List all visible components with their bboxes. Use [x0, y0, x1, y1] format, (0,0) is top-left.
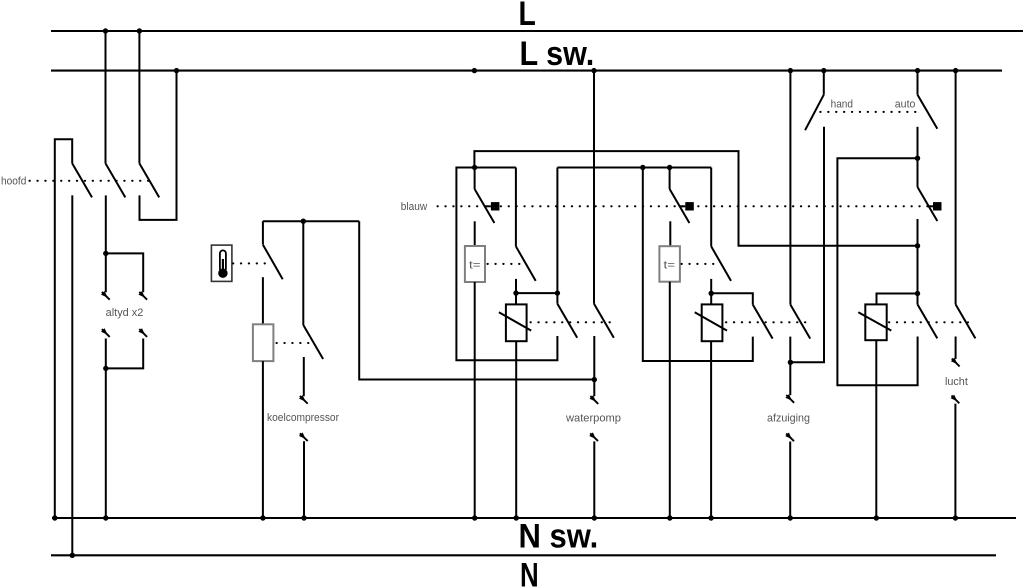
junction dot N hoofd pole1	[70, 553, 75, 558]
koel thermostat switch top stub	[262, 221, 264, 244]
koelcompressor top feed wire	[263, 220, 359, 222]
afzuiging timer box t=	[659, 246, 680, 282]
svg-text:waterpomp: waterpomp	[565, 413, 621, 425]
altyd branch bottom wires	[106, 339, 143, 369]
junction dot L sw. lucht switch D	[953, 68, 958, 73]
junction dot waterpomp node C	[555, 290, 560, 295]
junction dot N sw. lucht box	[874, 515, 879, 520]
wire auto switch to lucht contact	[837, 158, 917, 385]
afzuiging timer dotted link	[682, 263, 720, 265]
lucht switch D bottom stub	[955, 337, 957, 359]
waterpomp switch A indicator square	[491, 202, 500, 210]
lucht switch D blade	[956, 304, 976, 338]
wire altyd node to N sw. rail	[105, 368, 107, 518]
lucht switch A stub	[917, 158, 919, 187]
afzuiging contactor box	[702, 304, 723, 341]
junction dot lucht node C	[915, 291, 920, 296]
wire switch A to timer	[474, 221, 476, 246]
afzuiging switch B blade	[711, 246, 731, 281]
wire coil box to N sw. rail	[262, 361, 264, 518]
altyd lamp outlet arrow right bottom	[138, 328, 147, 337]
lucht switch A indicator square	[933, 202, 942, 210]
junction dot afzuiging switch A	[667, 165, 672, 170]
junction dot N sw. koel return	[301, 515, 306, 520]
wire afzuiging node to hand switch	[790, 127, 824, 362]
junction dot altyd top	[103, 251, 108, 256]
waterpomp switch D blade	[594, 304, 614, 338]
wire afzuiging return to N sw. rail	[789, 442, 791, 519]
wire lucht return to N sw. rail	[954, 404, 956, 518]
junction dot afzuiging hand join	[788, 360, 793, 365]
junction dot N sw. waterpomp return	[592, 515, 597, 520]
hoofd switch dotted link line	[30, 180, 153, 182]
thermostat sensor box	[211, 245, 232, 281]
waterpomp switch B top wire	[515, 168, 517, 247]
afzuiging switch A blade	[670, 189, 690, 223]
junction dot L pole3	[137, 28, 142, 33]
junction dot L sw. waterpomp switch D	[591, 68, 596, 73]
svg-text:hoofd: hoofd	[1, 175, 26, 187]
koel contactor switch blade	[303, 325, 323, 359]
junction dot L sw. auto	[915, 68, 920, 73]
hoofd switch pole 3 blade	[139, 163, 159, 197]
waterpomp switch D bottom wire	[593, 336, 595, 396]
svg-text:t=: t=	[664, 259, 676, 271]
altyd lamp outlet arrow right top	[138, 291, 147, 300]
hand switch top stub	[823, 71, 825, 95]
wire hoofd pole 2 bottom to altyd node	[105, 195, 107, 253]
blauw dotted link line	[438, 205, 934, 207]
junction dot auto out	[915, 156, 920, 161]
waterpomp switch A lamp tick	[485, 205, 491, 207]
junction dot L sw. hoofd	[174, 68, 179, 73]
afzuiging switch B bottom stub	[710, 279, 712, 293]
lucht contactor dotted link	[889, 321, 968, 323]
lucht contactor diagonal	[858, 312, 891, 330]
waterpomp contactor box	[506, 304, 527, 341]
svg-text:hand: hand	[831, 99, 853, 111]
junction dot N sw. afzuiging timer	[667, 515, 672, 520]
junction dot N sw. koel coil	[260, 515, 265, 520]
junction dot L pole2	[103, 28, 108, 33]
waterpomp contactor diagonal	[499, 312, 531, 330]
afzuiging switch B top wire	[710, 168, 712, 247]
waterpomp switch B blade	[516, 246, 536, 281]
afzuiging box top stub	[710, 293, 712, 304]
waterpomp outlet arrow top	[590, 395, 599, 404]
waterpomp switch A stub	[474, 168, 476, 190]
afzuiging switch D bottom wire	[789, 337, 791, 396]
wire koel feed from waterpomp node	[359, 221, 594, 379]
hoofd switch pole 2 blade	[106, 163, 126, 197]
koel contactor switch top stub	[302, 221, 304, 325]
junction dot lucht feed	[915, 243, 920, 248]
L rail	[51, 30, 1023, 32]
lucht outlet arrow top	[951, 358, 960, 367]
svg-text:blauw: blauw	[401, 201, 427, 213]
lucht contactor box	[865, 304, 886, 340]
hand switch blade	[805, 95, 824, 131]
koel contactor coil box	[253, 324, 274, 361]
wire contactor switch to koelcompressor outlet	[303, 357, 305, 396]
svg-text:N: N	[520, 557, 539, 587]
junction dot altyd bottom	[103, 366, 108, 371]
afzuiging contactor dotted link	[726, 321, 806, 323]
junction dot N sw. waterpomp box	[514, 515, 519, 520]
afzuiging return arrow	[785, 433, 794, 442]
lucht switch A bottom wire	[917, 219, 919, 294]
afzuiging switch A indicator square	[685, 202, 694, 210]
auto switch bottom stub	[917, 127, 919, 158]
koelcompressor outlet arrow top	[299, 395, 308, 404]
wire hoofd pole 3 bottom to L sw. rail	[140, 71, 177, 220]
svg-text:L: L	[519, 0, 536, 33]
wire waterpomp box to N sw. rail	[515, 341, 517, 518]
hoofd switch pole 3 top wire	[138, 31, 140, 163]
wire afzuiging timer to N sw. rail	[669, 282, 671, 518]
waterpomp switch B bottom stub	[515, 279, 517, 293]
svg-text:lucht: lucht	[945, 376, 968, 388]
altyd lamp outlet arrow left top	[101, 291, 110, 300]
afzuiging switch A lamp tick	[680, 205, 686, 207]
waterpomp return arrow	[589, 432, 598, 441]
junction dot N sw. afzuiging return	[788, 515, 793, 520]
lucht switch A blade	[918, 187, 938, 221]
hoofd switch pole 2 top wire	[105, 31, 107, 163]
afzuiging switch C blade	[753, 305, 773, 339]
N rail	[51, 554, 996, 556]
junction dot koel feed	[301, 219, 306, 224]
wire afzuiging switch A to timer	[669, 221, 671, 246]
N sw. rail	[52, 517, 1016, 519]
lucht switch A lamp tick	[928, 205, 933, 207]
wire N sw. to hoofd pole 1 top	[55, 139, 72, 518]
wire node B to C waterpomp	[516, 292, 557, 294]
waterpomp feed wire from lucht	[474, 151, 917, 246]
waterpomp switch D top wire from L sw.	[593, 71, 595, 304]
waterpomp switch A blade	[475, 189, 495, 223]
afzuiging outlet arrow top	[785, 394, 794, 403]
koelcompressor return arrow	[299, 432, 308, 441]
koel contactor dotted link line	[277, 342, 312, 344]
junction dot L sw. waterpomp feed	[472, 68, 477, 73]
waterpomp timer dotted link	[488, 263, 525, 265]
thermostat dotted link line	[233, 262, 269, 264]
wire thermostat switch to contactor coil	[262, 277, 264, 324]
wire lucht box to N sw. rail	[875, 340, 877, 518]
svg-text:altyd x2: altyd x2	[106, 307, 144, 319]
junction dot L sw. afzuiging switch D	[788, 68, 793, 73]
afzuiging switch A stub	[669, 168, 671, 190]
lucht return arrow	[951, 395, 960, 404]
afzuiging contactor diagonal	[695, 312, 727, 330]
auto switch top stub	[917, 71, 919, 95]
junction dot waterpomp koel join	[592, 377, 597, 382]
afzuiging left loop wire	[643, 168, 753, 362]
wire afzuiging box to N sw. rail	[710, 341, 712, 518]
wire node B to C afzuiging	[711, 293, 753, 304]
junction dot afzuiging loop	[640, 165, 645, 170]
junction dot L sw. hand	[821, 68, 826, 73]
svg-text:t=: t=	[469, 259, 481, 271]
lucht switch D top wire from L sw.	[955, 71, 957, 305]
waterpomp switch C top wire	[557, 168, 711, 304]
afzuiging switch D top wire from L sw.	[789, 71, 791, 305]
koel thermostat switch blade	[263, 245, 283, 280]
junction dot waterpomp feed node	[472, 165, 477, 170]
waterpomp feed left loop wire	[456, 168, 557, 361]
junction dot N sw. waterpomp timer	[472, 515, 477, 520]
auto switch blade	[918, 95, 938, 129]
junction dot waterpomp node B	[513, 290, 518, 295]
waterpomp box top stub	[515, 293, 517, 304]
wire hoofd pole 1 bottom to N rail	[71, 195, 73, 555]
waterpomp contactor dotted link	[531, 321, 611, 323]
svg-text:auto: auto	[895, 99, 916, 111]
lucht box branch wire	[877, 294, 918, 305]
wire timer to N sw. rail	[474, 282, 476, 518]
svg-text:afzuiging: afzuiging	[767, 413, 810, 425]
junction dot N sw. afzuiging box	[708, 515, 713, 520]
afzuiging switch D blade	[790, 305, 810, 339]
svg-text:N sw.: N sw.	[519, 518, 599, 556]
lucht switch C blade	[918, 304, 938, 338]
waterpomp timer box t=	[465, 246, 485, 282]
hand auto dotted link line	[820, 111, 921, 113]
L sw. rail	[51, 70, 1002, 72]
junction dot N sw. hoofd pole1	[52, 515, 57, 520]
junction dot afzuiging node B	[709, 291, 714, 296]
lucht switch C stub	[917, 294, 919, 305]
altyd branch top wires	[106, 253, 143, 292]
altyd lamp outlet arrow left bottom	[101, 328, 110, 337]
hoofd switch pole 1 blade	[72, 163, 92, 197]
junction dot N sw. lucht return	[953, 515, 958, 520]
svg-text:koelcompressor: koelcompressor	[267, 412, 339, 424]
thermometer icon	[218, 250, 227, 278]
wire koelcompressor return to N sw. rail	[303, 441, 305, 518]
junction dot N sw. altyd	[103, 515, 108, 520]
waterpomp switch C blade	[557, 304, 577, 338]
svg-text:L sw.: L sw.	[520, 35, 595, 73]
wire waterpomp return to N sw. rail	[593, 441, 595, 518]
